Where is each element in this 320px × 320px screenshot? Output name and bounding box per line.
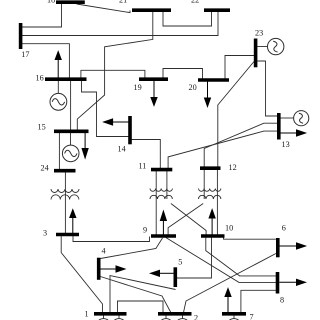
svg-text:1: 1 [85,310,89,319]
svg-text:5: 5 [178,258,182,267]
svg-text:6: 6 [282,224,286,233]
svg-text:7: 7 [250,313,254,320]
svg-text:2: 2 [194,314,198,320]
svg-text:3: 3 [43,229,47,238]
svg-text:18: 18 [47,0,55,4]
svg-text:12: 12 [229,163,237,172]
svg-text:17: 17 [21,50,29,59]
svg-text:16: 16 [36,74,44,83]
svg-text:21: 21 [119,0,127,5]
svg-text:4: 4 [102,247,106,256]
svg-text:20: 20 [189,83,197,92]
svg-text:19: 19 [134,83,142,92]
svg-text:23: 23 [255,29,263,38]
svg-text:14: 14 [118,145,126,154]
svg-text:22: 22 [191,0,199,5]
svg-text:9: 9 [143,226,147,235]
svg-text:8: 8 [280,296,284,305]
svg-text:24: 24 [41,164,49,173]
svg-text:13: 13 [282,140,290,149]
svg-text:15: 15 [38,123,46,132]
svg-text:10: 10 [225,224,233,233]
svg-text:11: 11 [139,162,147,171]
